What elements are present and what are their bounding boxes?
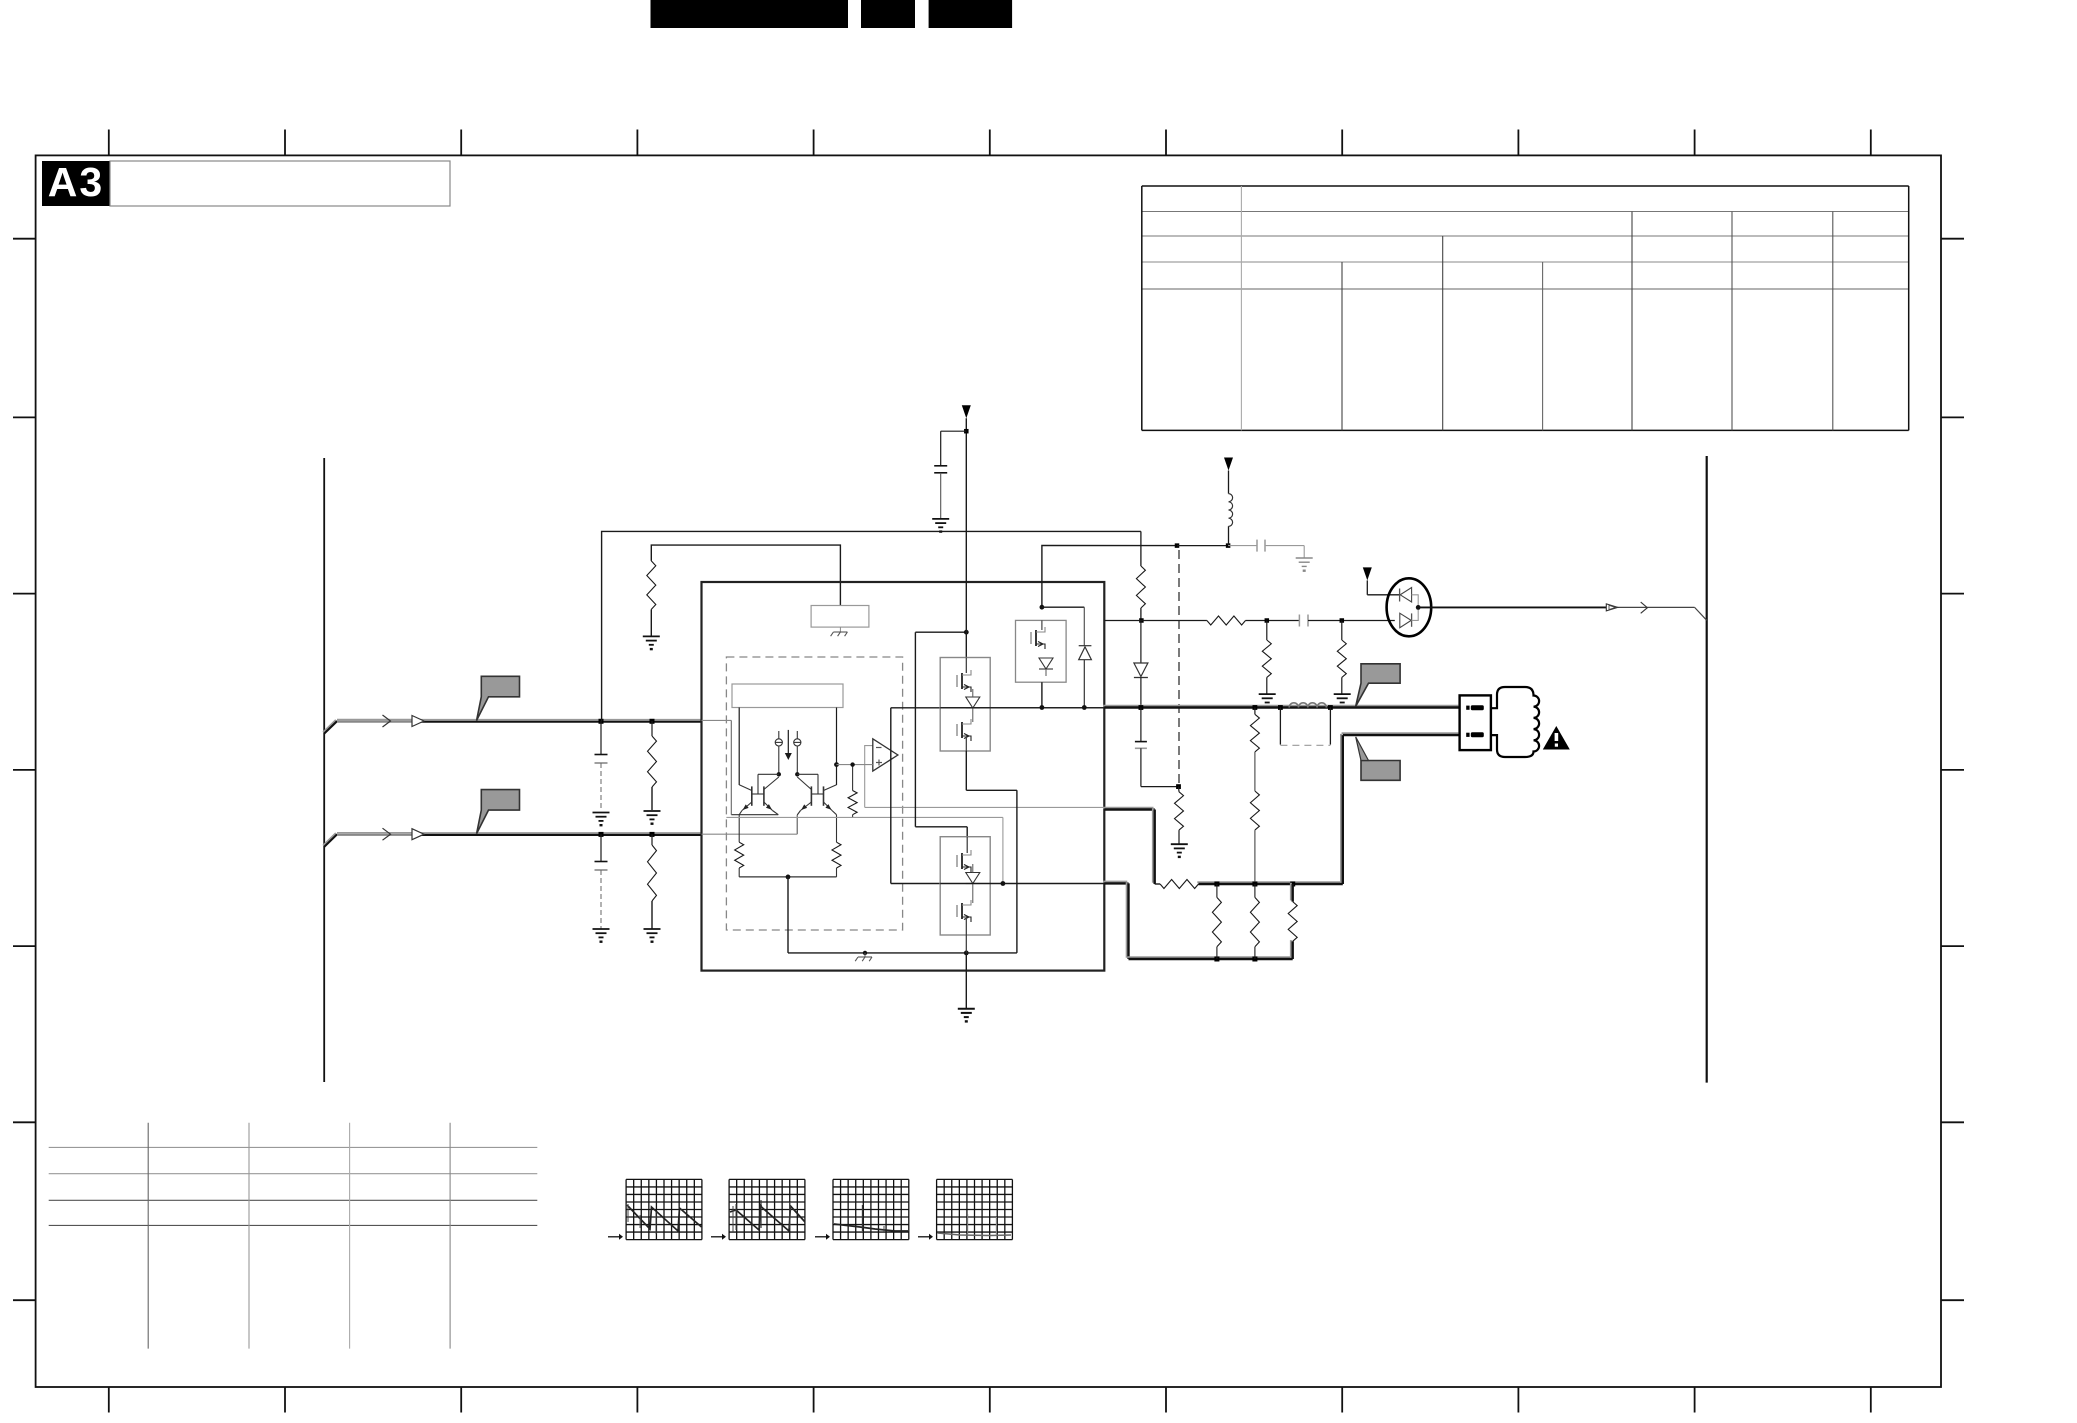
center power vertical bbox=[965, 418, 967, 657]
junction D1-bus bbox=[1082, 705, 1087, 710]
net flag IN2 bbox=[477, 790, 520, 834]
M2 out lead bbox=[940, 883, 1104, 885]
M2 lower FET bbox=[957, 900, 971, 922]
Q2L emitter drop to IN2 bbox=[796, 815, 798, 834]
IN2 chevron arrow bbox=[383, 828, 391, 840]
inductor L1 feed bbox=[1228, 471, 1230, 494]
frame right tick marks bbox=[1941, 239, 1964, 1301]
notes table (bottom left) bbox=[49, 1123, 538, 1349]
resistor R4 (netA) bbox=[1140, 531, 1142, 566]
snubber box Q3 outline bbox=[1016, 620, 1067, 682]
M1 internal link bbox=[972, 689, 974, 697]
resistor R13 bbox=[1290, 883, 1292, 901]
junction rail e bbox=[1252, 957, 1257, 962]
M2 internal link bbox=[972, 864, 974, 873]
snubber net wire bbox=[1042, 546, 1177, 608]
waveform trace 1 bbox=[627, 1205, 702, 1231]
waveform trace 3 bbox=[834, 1224, 908, 1231]
decoupling cap C3 bbox=[941, 430, 967, 432]
output wire OUT2 bbox=[1342, 732, 1459, 734]
redaction bar 1 (title block) bbox=[651, 0, 849, 28]
transistor pair Q2 bars bbox=[810, 786, 812, 805]
resistor R9 lower bbox=[1250, 791, 1259, 830]
junction snubber T bbox=[1040, 605, 1045, 610]
emitter bottom rail bbox=[739, 876, 836, 878]
J1 pin 2 bbox=[1466, 733, 1469, 737]
junction netS-dash bbox=[1175, 543, 1180, 548]
resistor R3 (net-B pulldown) bbox=[647, 561, 656, 610]
power arrow VCC3 bbox=[1363, 567, 1372, 580]
junction IN1/C-stub bbox=[599, 719, 604, 724]
right vertical bus line bbox=[1706, 456, 1708, 1083]
wire net-B bbox=[651, 545, 840, 605]
row wire 620b bbox=[1246, 620, 1300, 622]
U2 diode lower bbox=[1342, 620, 1400, 622]
junction OUT1-d bbox=[1328, 705, 1333, 710]
junction IN2/C-stub bbox=[599, 832, 604, 837]
IN1 chevron arrow bbox=[383, 715, 391, 727]
resistor R8 bbox=[1178, 787, 1181, 792]
junction Q3-bus bbox=[1040, 705, 1045, 710]
Q2L emitter+arrow bbox=[801, 802, 812, 811]
opto feed wire bbox=[1366, 580, 1368, 594]
resistor R7 bbox=[1341, 621, 1343, 641]
M2 source lead bbox=[965, 919, 967, 953]
inductor L1 bbox=[1229, 494, 1233, 527]
shield stub right bbox=[1329, 708, 1331, 745]
power arrow VCC1 bbox=[962, 405, 971, 418]
junction IN2/R-stub bbox=[650, 832, 655, 837]
IC analog ground rail bbox=[788, 952, 966, 954]
resistor R12 bbox=[1254, 884, 1256, 897]
junction U2 out bbox=[1416, 605, 1421, 610]
transformer T1 primary bbox=[1491, 687, 1539, 757]
left vertical bus line bbox=[323, 458, 325, 1082]
Q2L collector bbox=[797, 777, 811, 790]
shield dashed bottom bbox=[1280, 744, 1330, 746]
waveform trace 2 bbox=[730, 1204, 805, 1231]
page frame border bbox=[36, 155, 1941, 1387]
resistor R9 upper bbox=[1254, 708, 1256, 715]
feedback resistor RF bbox=[852, 765, 854, 791]
capacitor C1 (IN1) bbox=[600, 721, 602, 755]
warning triangle bbox=[1543, 726, 1570, 750]
top rail left stub bbox=[1103, 881, 1127, 883]
connector J1 outline bbox=[1460, 695, 1491, 750]
Q1R collector bbox=[764, 777, 779, 790]
junction D2-bus bbox=[1139, 705, 1144, 710]
wire op-in+ bbox=[837, 764, 873, 766]
input wire IN1 bbox=[323, 720, 702, 734]
net flag OUT2 bbox=[1361, 761, 1400, 781]
input wire IN2 bbox=[323, 833, 702, 847]
resistor R6 bbox=[1266, 621, 1268, 641]
power arrow VCC2 bbox=[1224, 458, 1233, 471]
waveform grid 4 bbox=[937, 1179, 1013, 1239]
junction base tie 1 bbox=[777, 772, 781, 776]
M1 drain lead bbox=[965, 658, 967, 674]
capacitor C4 (row) bbox=[1298, 615, 1300, 627]
C6 corner link bbox=[1141, 786, 1179, 788]
Q2R emitter+arrow bbox=[824, 802, 833, 811]
junction agnd-rake bbox=[863, 951, 867, 955]
Q3 FET bbox=[1031, 627, 1045, 649]
MOSFET block M2 outline bbox=[940, 837, 990, 935]
ground IC center bbox=[958, 1009, 975, 1017]
IC pin jog upper bbox=[1103, 807, 1153, 809]
U2 output wire bbox=[1418, 606, 1606, 608]
M1 upper FET bbox=[957, 670, 971, 692]
emitter resistor RE2 bbox=[836, 815, 838, 843]
current source CS1 bbox=[775, 739, 782, 746]
junction R4-row bbox=[1139, 618, 1144, 623]
junction rail b bbox=[1252, 882, 1257, 887]
U2 out chevron bbox=[1641, 602, 1648, 613]
capacitor C5 (snub) bbox=[1228, 545, 1257, 547]
gate bracket upper bbox=[891, 707, 940, 709]
M1 source jog bbox=[965, 751, 967, 790]
frame top tick marks bbox=[109, 130, 1871, 156]
redaction bar 3 bbox=[929, 0, 1013, 28]
snubber H link bbox=[1042, 606, 1084, 608]
IN1 internal continuation bbox=[702, 719, 732, 721]
MOSFET block M1 outline bbox=[940, 658, 990, 752]
waveform grid 3 input arrow bbox=[815, 1236, 826, 1238]
bandgap dashed box bbox=[726, 657, 902, 930]
U2 internal bracket bbox=[1412, 595, 1419, 621]
frame left tick marks bbox=[13, 239, 36, 1301]
U2 diode upper bbox=[1399, 589, 1401, 602]
waveform grid 2 bbox=[729, 1179, 805, 1239]
op-amp U1A feedback box bbox=[865, 746, 873, 808]
M1 body diode bbox=[966, 697, 980, 708]
junction OUT1-a bbox=[1139, 705, 1144, 710]
row wire 620 bbox=[1104, 620, 1207, 622]
junction row-R7 bbox=[1340, 618, 1345, 623]
inductor L1 tail bbox=[1228, 526, 1230, 545]
IC U1 outline bbox=[702, 582, 1105, 971]
external diode D1 bbox=[1079, 645, 1092, 647]
junction OUT1-c bbox=[1278, 705, 1283, 710]
reference block rect bbox=[732, 684, 843, 708]
ground C5 (gray) bbox=[1296, 558, 1313, 566]
current source CS2 bbox=[794, 739, 801, 746]
ground C2 bbox=[593, 929, 610, 937]
ground R6 bbox=[1259, 694, 1276, 702]
resistor R1 (IN1) bbox=[651, 721, 653, 736]
junction op-in node bbox=[834, 762, 839, 767]
Q1 emitter rail bbox=[731, 814, 778, 816]
current sense resistor R10 bbox=[1160, 880, 1198, 889]
ref lead right bbox=[836, 708, 838, 786]
M2 drain lead bbox=[966, 837, 968, 853]
rail riser to OUT2 bbox=[1340, 734, 1342, 883]
feedback gray line bbox=[726, 816, 1003, 818]
junction base tie 2 bbox=[795, 772, 799, 776]
Q1L emitter+arrow bbox=[742, 802, 752, 811]
ref lead left bbox=[738, 708, 740, 786]
waveform trace 4 bbox=[938, 1233, 1012, 1236]
waveform grid 1 input arrow bbox=[608, 1236, 619, 1238]
ground R7 bbox=[1334, 694, 1351, 702]
gate drive from center bbox=[915, 631, 966, 633]
junction IN1/R-stub bbox=[650, 719, 655, 724]
junction netS-L1 bbox=[1226, 543, 1231, 548]
ground R1 bbox=[644, 811, 661, 819]
bottom rail bbox=[1127, 956, 1291, 958]
waveform grid 3 bbox=[833, 1179, 909, 1239]
ground C3 bbox=[932, 519, 949, 527]
Q3 diode bbox=[1039, 658, 1053, 669]
junction rail a bbox=[1214, 882, 1219, 887]
junction tail node bbox=[786, 875, 791, 880]
M1 source lead bbox=[965, 738, 967, 751]
M2 body diode bbox=[966, 873, 980, 884]
junction M2-gray bbox=[1001, 881, 1006, 886]
Q1R emitter+arrow bbox=[764, 802, 773, 811]
ground R8 bbox=[1171, 844, 1188, 852]
junction agnd-center bbox=[964, 951, 969, 956]
chassis ground rake (IC) bbox=[864, 953, 866, 957]
sheet label A3 black box bbox=[42, 161, 110, 206]
bias arrow bbox=[787, 730, 789, 753]
diode D2 bbox=[1140, 621, 1142, 664]
resistor R11 bbox=[1216, 884, 1218, 897]
waveform grid 1 bbox=[626, 1179, 702, 1239]
wire net-A top bbox=[602, 531, 1141, 721]
capacitor C6 bbox=[1140, 708, 1142, 742]
netS wire bbox=[1177, 545, 1228, 547]
center ground lead bbox=[965, 953, 967, 1009]
junction sense bbox=[1176, 784, 1181, 789]
dashed net vertical bbox=[1178, 550, 1180, 784]
tail wire down bbox=[787, 877, 789, 953]
redaction bar 2 bbox=[861, 0, 915, 28]
junction rail d bbox=[1214, 957, 1219, 962]
op-amp U1A triangle bbox=[873, 739, 898, 771]
net flag IN1 bbox=[477, 676, 520, 720]
svg-text:A3: A3 bbox=[48, 159, 104, 205]
inner bus segment bbox=[940, 707, 1104, 709]
junction RF top bbox=[850, 762, 854, 766]
junction cap stub bbox=[964, 429, 969, 434]
resistor R5 (row) bbox=[1207, 616, 1246, 625]
optocoupler U2 outline bbox=[1387, 578, 1432, 636]
ferrite bead FB1 bbox=[1289, 703, 1326, 708]
Q3 internal lead bbox=[1041, 620, 1043, 630]
transistor pair Q1 bars bbox=[751, 786, 753, 805]
row wire 620c bbox=[1308, 620, 1395, 622]
revision table (top right) bbox=[1142, 186, 1909, 430]
frame bottom tick marks bbox=[109, 1387, 1871, 1413]
U2 out open arrow bbox=[1606, 604, 1617, 611]
IN2 internal continuation bbox=[702, 833, 798, 835]
base tie wires bbox=[758, 773, 779, 775]
output bus OUT1 bbox=[1103, 705, 1458, 707]
chassis ground under X1 bbox=[839, 627, 841, 632]
ground R3 bbox=[643, 636, 660, 644]
junction gate tap bbox=[964, 630, 969, 635]
oscillator block X1 bbox=[811, 606, 869, 628]
resistor R2 (IN2) bbox=[651, 834, 653, 845]
IN2 open arrow bbox=[412, 829, 424, 840]
shield stub left bbox=[1279, 708, 1281, 745]
Q3 source lead bbox=[1041, 682, 1043, 707]
sheet label title rectangle bbox=[110, 161, 450, 206]
emitter resistor RE1 bbox=[738, 815, 740, 843]
waveform grid 2 input arrow bbox=[711, 1236, 722, 1238]
Q2R collector bbox=[824, 785, 837, 791]
capacitor C2 (IN2) bbox=[600, 834, 602, 861]
junction row-R6 bbox=[1265, 618, 1270, 623]
ground R2 bbox=[644, 929, 661, 937]
waveform grid 4 input arrow bbox=[918, 1236, 929, 1238]
M2 upper FET bbox=[957, 850, 971, 872]
junction rail c bbox=[1290, 882, 1295, 887]
M1 lower FET bbox=[957, 719, 971, 741]
J1 pin 1 bbox=[1466, 706, 1469, 710]
IN1 open arrow bbox=[412, 716, 424, 727]
junction OUT1-b bbox=[1253, 705, 1258, 710]
ground C1 bbox=[593, 813, 610, 821]
net flag OUT1 bbox=[1356, 664, 1400, 707]
